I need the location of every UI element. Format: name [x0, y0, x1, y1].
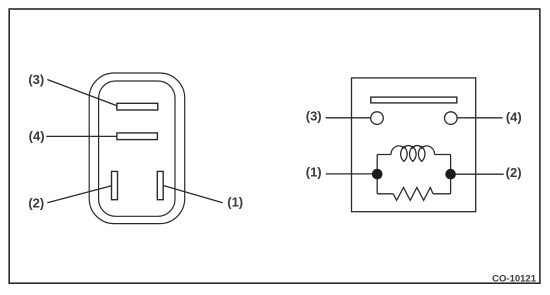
node 1 dot	[372, 169, 383, 180]
terminal circle 4	[445, 112, 458, 125]
node 2 dot	[445, 169, 456, 180]
leader line label 3	[47, 80, 117, 106]
terminal circle 3	[371, 112, 384, 125]
wire loop top segments	[377, 154, 450, 156]
pin 3 terminal	[117, 103, 158, 110]
wire loop right side	[450, 155, 452, 194]
relay coil loop 2	[410, 146, 417, 161]
pin 1 terminal	[157, 171, 163, 199]
pin 4 terminal	[117, 133, 157, 140]
relay coil L humps	[391, 146, 435, 155]
svg-text:(1): (1)	[306, 165, 322, 180]
leader line label 2	[47, 186, 111, 203]
svg-text:(4): (4)	[506, 109, 522, 124]
leader line schematic 2	[456, 173, 504, 175]
relay coil loop 1	[401, 146, 408, 161]
leader line label 1	[163, 186, 223, 203]
relay coil loop 3	[418, 146, 425, 161]
relay connector outer housing	[89, 73, 185, 224]
pin 2 terminal	[112, 171, 118, 199]
relay connector inner housing	[99, 81, 175, 216]
schematic box	[352, 78, 476, 212]
leader line schematic 4	[457, 117, 502, 119]
wire loop bottom segments	[377, 193, 450, 195]
svg-text:(1): (1)	[227, 195, 243, 210]
svg-text:(3): (3)	[28, 72, 44, 87]
svg-text:(4): (4)	[29, 129, 45, 144]
leader line schematic 1	[326, 173, 373, 175]
svg-text:(2): (2)	[28, 195, 44, 210]
leader line label 4	[46, 135, 117, 137]
svg-text:CO-10121: CO-10121	[492, 274, 537, 285]
resistor zigzag	[393, 188, 433, 201]
wire loop left side	[376, 155, 378, 194]
contact bar	[371, 97, 457, 103]
svg-text:(3): (3)	[306, 108, 322, 123]
svg-text:(2): (2)	[506, 165, 522, 180]
leader line schematic 3	[326, 117, 371, 119]
